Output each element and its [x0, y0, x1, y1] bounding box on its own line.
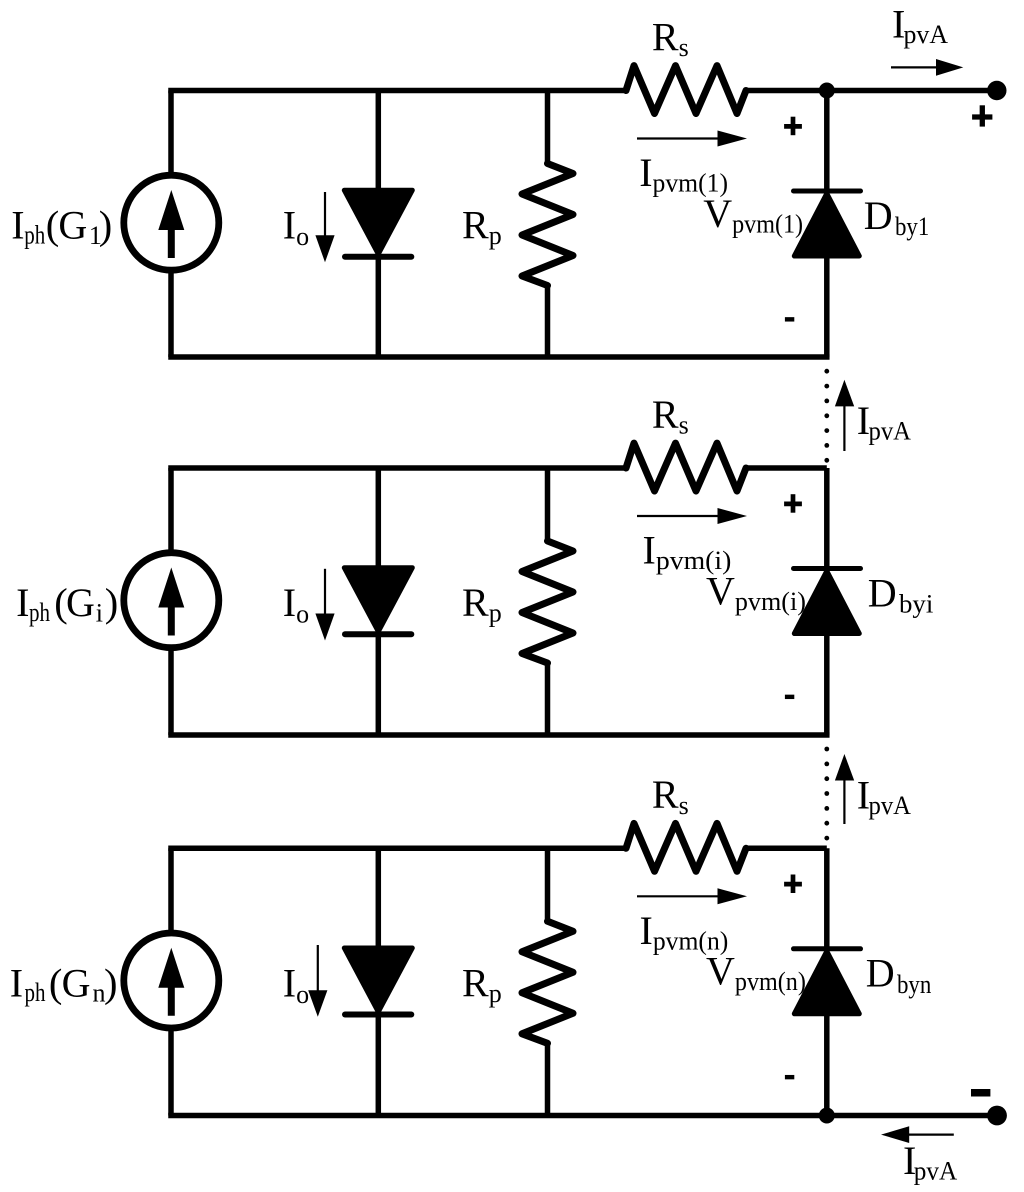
- svg-text:IpvA: IpvA: [857, 773, 912, 821]
- wire: cell 3 top right (Rs to bypass branch): [746, 846, 827, 852]
- node: cell 3 return junction dot: [819, 1108, 835, 1124]
- wire: cell 2 bottom: [168, 732, 829, 738]
- wire: diode branch upper (cell 1): [376, 91, 382, 191]
- svg-text:Io: Io: [283, 961, 309, 1009]
- diode D (cell 3) cathode bar: [345, 1012, 411, 1018]
- wire: cell 1 left upper: [168, 91, 174, 176]
- wire: bypass branch upper (cell 1): [824, 91, 830, 192]
- current source arrow head (cell 1): [158, 190, 184, 230]
- wire: bypass branch lower (cell 3): [824, 1014, 830, 1116]
- wire: diode branch upper (cell 2): [376, 468, 382, 568]
- resistor R_s (cell 2) zigzag: [626, 443, 746, 491]
- node label: - terminal of V_pvm(i): [785, 695, 794, 699]
- bypass diode D_byn triangle: [794, 951, 859, 1014]
- wire: cell 3 left lower: [168, 1028, 174, 1115]
- I_pvm(1) current arrow head: [718, 131, 748, 147]
- svg-text:Rs: Rs: [652, 392, 689, 440]
- diode D (cell 1) cathode bar: [345, 254, 411, 260]
- I_o current arrow shaft (cell 1): [324, 192, 326, 237]
- wire: Rp branch upper (cell 2): [545, 468, 551, 543]
- current source I_ph circle (cell 3): [124, 933, 219, 1028]
- wire: cell 3 top (left corner to Rs): [168, 846, 626, 852]
- I_o current arrow shaft (cell 2): [324, 569, 326, 615]
- wire: bypass branch upper (cell 3): [824, 848, 830, 949]
- svg-text:Io: Io: [283, 203, 309, 251]
- svg-text:Rp: Rp: [462, 580, 502, 628]
- node: cell 1 output junction dot: [819, 83, 835, 99]
- current source arrow head (cell 3): [158, 948, 184, 988]
- I_pvm(i) current arrow shaft: [637, 515, 719, 517]
- svg-text:IpvA: IpvA: [857, 398, 912, 446]
- wire: to + terminal: [827, 88, 988, 94]
- bypass diode D_by1 cathode bar: [794, 189, 861, 194]
- current source arrow shaft (cell 2): [168, 603, 175, 636]
- I_o current arrow head (cell 3): [308, 990, 327, 1016]
- svg-text:Iph(Gi): Iph(Gi): [16, 580, 118, 627]
- diode D (cell 1) triangle: [344, 190, 412, 254]
- bypass diode D_byn cathode bar: [794, 946, 861, 951]
- svg-text:IpvA: IpvA: [892, 1, 948, 49]
- wire: dotted series link 1: [824, 369, 829, 463]
- wire: Rp branch lower (cell 2): [545, 661, 551, 735]
- wire: cell 2 top (left corner to Rs): [168, 465, 626, 471]
- wire: Rp branch lower (cell 1): [545, 284, 551, 358]
- diode D (cell 2) cathode bar: [345, 631, 411, 637]
- I_pvA arrow shaft (gap 2): [843, 779, 845, 825]
- resistor R_s (cell 3) zigzag: [626, 823, 746, 871]
- wire: Rp branch upper (cell 3): [545, 848, 551, 923]
- current source I_ph circle (cell 1): [124, 175, 219, 270]
- wire: cell 1 top right (Rs to bypass branch): [746, 88, 827, 94]
- svg-text:IpvA: IpvA: [903, 1138, 958, 1186]
- wire: diode branch lower (cell 1): [376, 257, 382, 357]
- - output terminal dot: [987, 1106, 1007, 1126]
- node label: + terminal of V_pvm(1): [784, 117, 802, 136]
- wire: cell 3 left upper: [168, 848, 174, 933]
- I_o current arrow head (cell 2): [315, 614, 334, 641]
- diode D (cell 2) triangle: [344, 568, 412, 632]
- svg-text:Rp: Rp: [462, 960, 502, 1008]
- I_pvA return arrow shaft (bottom): [909, 1133, 954, 1135]
- I_o current arrow head (cell 1): [315, 235, 334, 262]
- wire: diode branch upper (cell 3): [376, 848, 382, 948]
- svg-text:Dby1: Dby1: [864, 193, 930, 241]
- svg-text:Rs: Rs: [652, 14, 689, 62]
- svg-text:Vpvm(n): Vpvm(n): [706, 949, 806, 997]
- diode D (cell 3) triangle: [344, 948, 412, 1012]
- svg-text:Vpvm(1): Vpvm(1): [703, 191, 803, 239]
- node label: + terminal of V_pvm(i): [784, 494, 802, 513]
- I_pvA output arrow shaft (top): [891, 66, 938, 68]
- wire: cell 2 left lower: [168, 648, 174, 735]
- svg-text:Io: Io: [283, 580, 309, 628]
- bypass diode D_by1 triangle: [794, 194, 859, 257]
- wire: cell 1 top (left corner to Rs): [168, 88, 626, 94]
- wire: cell 2 left upper: [168, 468, 174, 553]
- wire: Rp branch lower (cell 3): [545, 1041, 551, 1115]
- wire: cell 2 top right (Rs to bypass branch): [746, 465, 827, 471]
- node label: - terminal of V_pvm(n): [785, 1075, 794, 1079]
- wire: cell 1 left lower: [168, 271, 174, 358]
- svg-text:Rp: Rp: [462, 203, 502, 251]
- current source I_ph circle (cell 2): [124, 553, 219, 648]
- I_pvm(i) current arrow head: [718, 508, 748, 524]
- svg-text:Iph(Gn): Iph(Gn): [10, 961, 118, 1008]
- wire: bypass branch upper (cell 2): [824, 468, 830, 569]
- terminal label: -: [971, 1089, 990, 1097]
- resistor R_s (cell 1) zigzag: [626, 66, 746, 114]
- bypass diode D_byi triangle: [794, 571, 859, 634]
- svg-text:Rs: Rs: [652, 772, 689, 820]
- wire: diode branch lower (cell 2): [376, 634, 382, 735]
- + output terminal dot: [987, 81, 1006, 100]
- svg-text:Iph(G1): Iph(G1): [11, 203, 112, 250]
- wire: bypass branch lower (cell 1): [824, 256, 830, 357]
- wire: diode branch lower (cell 3): [376, 1015, 382, 1116]
- svg-text:Dbyn: Dbyn: [866, 951, 932, 999]
- I_pvA arrow head (gap 2): [835, 754, 854, 781]
- terminal label: +: [972, 105, 992, 126]
- wire: cell 3 bottom: [168, 1113, 996, 1119]
- I_pvA output arrow head (top): [936, 59, 963, 76]
- I_pvA arrow shaft (gap 1): [843, 404, 845, 451]
- I_pvm(n) current arrow shaft: [637, 895, 719, 897]
- node label: - terminal of V_pvm(1): [785, 317, 794, 321]
- I_o current arrow shaft (cell 3): [317, 945, 319, 992]
- resistor R_p (cell 1) zigzag: [522, 164, 573, 286]
- I_pvA arrow head (gap 1): [835, 380, 854, 407]
- wire: dotted series link 2: [824, 747, 829, 841]
- resistor R_p (cell 3) zigzag: [522, 921, 573, 1043]
- bypass diode D_byi cathode bar: [794, 566, 861, 571]
- current source arrow shaft (cell 1): [168, 226, 175, 259]
- wire: bypass branch lower (cell 2): [824, 634, 830, 736]
- node label: + terminal of V_pvm(n): [784, 875, 802, 894]
- current source arrow shaft (cell 3): [168, 983, 175, 1016]
- wire: Rp branch upper (cell 1): [545, 91, 551, 166]
- I_pvA return arrow head (bottom): [881, 1126, 909, 1143]
- svg-text:Vpvm(i): Vpvm(i): [706, 568, 806, 616]
- resistor R_p (cell 2) zigzag: [522, 541, 573, 663]
- I_pvm(1) current arrow shaft: [637, 137, 719, 139]
- current source arrow head (cell 2): [158, 568, 184, 608]
- svg-text:Dbyi: Dbyi: [868, 570, 934, 618]
- I_pvm(n) current arrow head: [718, 888, 748, 904]
- wire: cell 1 bottom: [168, 354, 829, 360]
